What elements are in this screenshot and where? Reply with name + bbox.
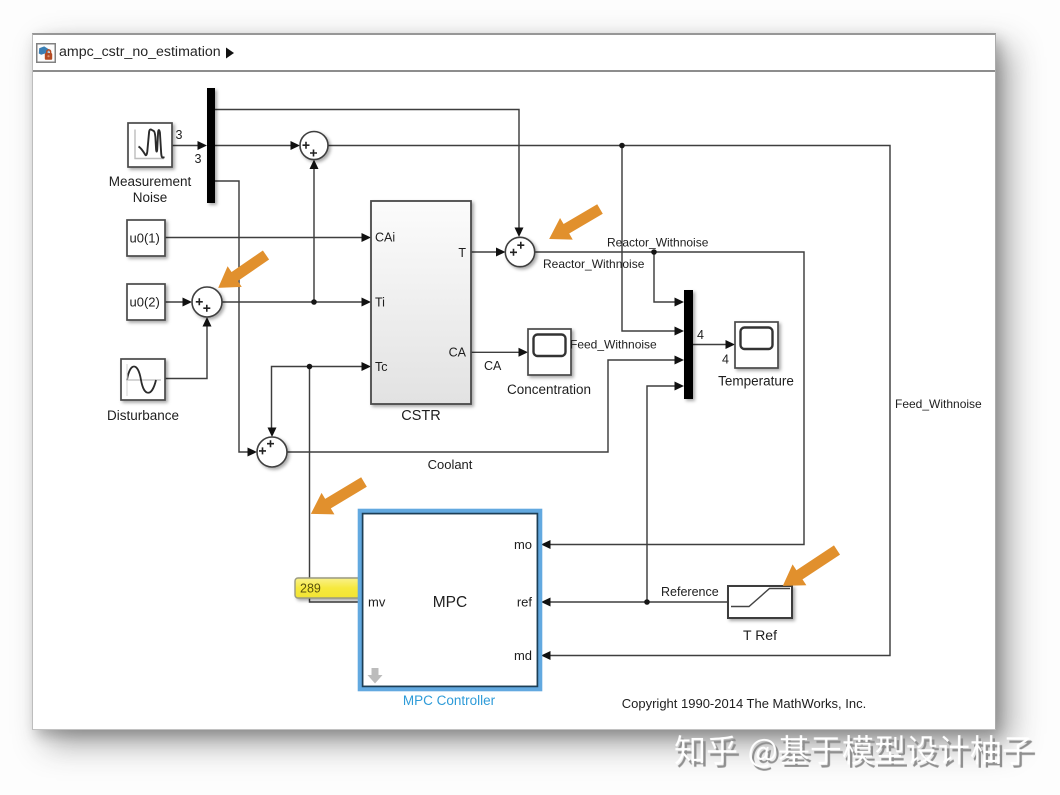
arrowhead into Concentration [519,348,529,357]
block Concentration scope [528,329,571,375]
arrowhead into CSTR CAi [362,233,372,242]
arrowhead into Mux in1 [675,298,685,307]
arrowhead into Sum1 bottom [310,160,319,170]
breadcrumb caret [224,46,236,60]
model window page [32,33,996,730]
annotation arrow at Sum3 [211,245,273,298]
wire Demux out3 to Sum4 left [215,181,248,452]
sum Sum2 [505,237,534,266]
wire Disturbance to Sum3 bottom [165,326,207,379]
block Temperature scope [735,322,778,368]
arrowhead into Demux [198,141,208,150]
wire branch Feed_Withnoise to Mux in2 [622,146,675,332]
wire Mux out to Temperature [693,344,726,346]
node Feed_Withnoise branch [619,143,625,149]
sum Sum1 [300,132,328,160]
block Disturbance [121,359,165,400]
wire Sum2 out (Reactor_Withnoise) to MPC mo [536,252,805,545]
wire Sum4 out (Coolant) to Mux in3 [287,360,675,452]
sum Sum4 (Coolant) [257,437,287,467]
wire Measurement Noise to Demux [172,145,198,147]
icon MPC adapt arrow [368,668,383,684]
arrowhead into Mux in4 [675,382,685,391]
annotation arrow at Sum2 [543,198,607,249]
wire Demux out2 to Sum1 left [215,145,291,147]
block Demux (noise) [207,88,215,203]
block u0(1) [127,220,165,256]
annotation arrow at MPC [304,471,370,524]
block u0(2) [127,284,165,320]
arrowhead into CSTR Tc [362,362,372,371]
block Mux (4 signals) [684,290,693,399]
wire Ti junction up to Sum1 bottom [313,169,315,302]
wire Sum1 out (Feed_Withnoise) to MPC md [328,146,890,656]
node Ti / Sum1 branch [311,299,317,305]
arrowhead into Sum2 left [496,248,506,257]
node Reactor_Withnoise branch [651,249,657,255]
arrowhead into Sum3 bottom [203,317,212,327]
wire u0(2) to Sum3 left [165,301,183,303]
sum Sum3 [192,287,222,317]
block display 289 [295,578,361,598]
block T Ref [728,586,792,618]
arrowhead into CSTR Ti [362,298,372,307]
wire Tc junction right to CSTR Tc [310,366,363,368]
wire Tc junction left down to Sum4 top [272,367,310,429]
arrowhead into Mux in2 [675,327,685,336]
arrowhead into MPC ref [541,598,551,607]
block Measurement Noise [128,123,172,167]
wire Demux out1 to Sum2 top [215,110,519,229]
breadcrumb bar [33,35,995,72]
arrowhead into Sum4 left [248,448,258,457]
arrowhead into Sum4 top [268,428,277,438]
wire Sum3 out to CSTR Ti [222,301,362,303]
arrowhead into MPC mo [541,540,551,549]
breadcrumb title text [59,44,221,60]
breadcrumb model icon [36,43,56,63]
arrowhead into MPC md [541,651,551,660]
block CSTR [371,201,471,404]
arrowhead into Sum3 left [183,298,193,307]
wire branch Reference to Mux in4 [647,386,675,602]
node Tc / mv branch [307,364,313,370]
arrowhead into Sum2 top [515,228,524,238]
wire MPC mv up to Tc junction [310,367,361,603]
arrowhead into Temperature [726,340,736,349]
node Reference branch [644,599,650,605]
annotation arrow at T Ref [776,540,844,597]
wire T Ref to MPC ref [550,601,728,603]
block MPC Controller [360,511,540,689]
wire CSTR T to Sum2 left [471,251,496,253]
wire u0(1) to CSTR CAi [165,237,362,239]
arrowhead into Sum1 left [291,141,301,150]
wire CSTR CA to Concentration [471,351,519,353]
wire branch Reactor_Withnoise to Mux in1 [654,252,675,302]
arrowhead into Mux in3 [675,356,685,365]
